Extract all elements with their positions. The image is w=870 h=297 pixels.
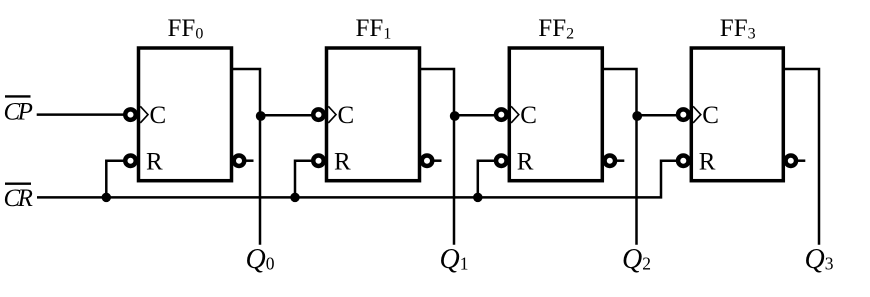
svg-text:R: R [146,149,163,176]
FF3 reset bubble [678,155,689,166]
FF3 output bubble [786,155,797,166]
FF3 pin label R [699,149,716,176]
svg-text:C: C [520,102,537,129]
wire FF2 output to Q2 drop [602,69,636,245]
FF3 clock bubble [678,109,689,120]
svg-text:R: R [517,149,534,176]
svg-text:R: R [334,149,351,176]
FF3 dynamic-input wedge [693,106,701,123]
svg-text:R: R [699,149,716,176]
net label Q1 [440,244,469,275]
svg-text:C: C [150,102,167,129]
FF2 pin label R [517,149,534,176]
FF3 output stub wire [798,159,806,162]
FF0 clock bubble [125,109,136,120]
FF2 output stub wire [617,159,625,162]
svg-text:CR: CR [4,185,33,212]
FF2 pin label C [520,102,537,129]
svg-text:C: C [702,102,719,129]
wire CR main line [37,161,676,198]
wire FF0 reset stub [106,161,123,198]
flip-flop FF0 box [139,48,232,181]
FF1 output bubble [422,155,433,166]
net label Q2 [622,244,651,275]
FF2 output bubble [605,155,616,166]
flip-flop FF3 box [691,48,783,181]
wire C line FF1 to FF2 [454,114,494,117]
label FF2 [538,15,574,43]
junction dot C-line Q1 [450,111,460,121]
svg-text:CP: CP [4,99,33,126]
wire FF1 reset stub [295,161,312,198]
FF2 clock bubble [496,109,507,120]
net label CP with overline [4,96,33,125]
FF0 output bubble [234,155,245,166]
FF1 pin label C [338,102,355,129]
label FF1 [356,15,392,43]
net label Q3 [805,244,834,275]
FF0 pin label R [146,149,163,176]
junction dot CR-FF2 [473,193,483,203]
label FF3 [720,15,756,43]
FF1 dynamic-input wedge [328,106,336,123]
wire C line FF2 to FF3 [637,114,677,117]
label FF0 [168,15,204,43]
wire C line FF0 to FF1 [260,114,312,117]
junction dot CR-FF1 [290,193,300,203]
FF0 output stub wire [246,159,254,162]
flip-flop FF1 box [327,48,420,181]
FF1 output stub wire [434,159,442,162]
wire FF1 output to Q1 drop [419,69,454,245]
net label Q0 [246,244,275,275]
wire CP input [37,113,124,116]
junction dot C-line Q2 [632,111,642,121]
FF1 clock bubble [313,109,324,120]
FF2 dynamic-input wedge [511,106,519,123]
wire FF2 reset stub [478,161,495,198]
FF0 reset bubble [125,155,136,166]
FF0 dynamic-input wedge [140,106,148,123]
FF1 reset bubble [313,155,324,166]
FF3 pin label C [702,102,719,129]
flip-flop FF2 box [509,48,602,181]
net label CR with overline [4,184,33,212]
junction dot CR-FF0 [102,193,112,203]
FF1 pin label R [334,149,351,176]
wire FF3 output to Q3 drop [783,69,819,245]
FF0 pin label C [150,102,167,129]
wire FF0 output to Q0 drop [232,69,261,245]
FF2 reset bubble [496,155,507,166]
svg-text:C: C [338,102,355,129]
junction dot C-line Q0 [256,111,266,121]
